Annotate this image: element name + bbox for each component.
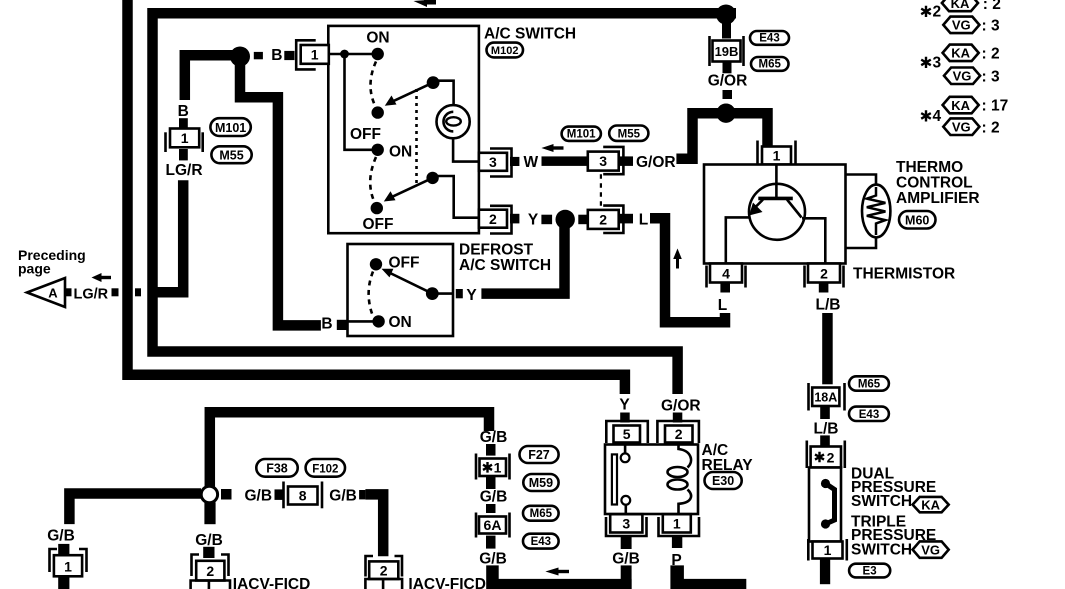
oval M65 [751,57,789,71]
wire: G/OR stub into relay pin 2 [673,413,683,423]
dashed link connector 3 to connector 2 [600,174,602,210]
wire: L/B down to 18A [822,313,833,384]
svg-text:IACV-FICD: IACV-FICD [408,576,486,589]
wire: P down and bottom bus right [670,565,746,589]
svg-text:3: 3 [622,516,630,532]
svg-text:2: 2 [933,4,942,21]
wire: stub below connector 1 [58,576,69,589]
svg-text:VG: VG [952,120,971,135]
svg-text:: 2: : 2 [982,46,1000,63]
svg-text:A/C SWITCH: A/C SWITCH [459,257,551,274]
svg-text:1: 1 [181,130,189,146]
svg-text:: 3: : 3 [982,68,1000,85]
note *3 KA:2 [921,57,931,68]
dual pressure switch body [809,468,841,542]
svg-text:M65: M65 [759,59,782,71]
wire: B stub into pin 1 [284,51,294,60]
svg-text:G/OR: G/OR [636,154,676,171]
wire: LG/R dash 3 [135,288,141,296]
svg-text:2: 2 [206,563,214,579]
wire: L stub right of connector 2 [620,214,633,224]
A/C relay box [605,445,698,515]
wire: stub above *2 [820,435,830,446]
svg-text:2: 2 [489,211,497,227]
wire: Y junction down to defrost switch [481,227,564,294]
connector 1 (pressure switch) [808,539,847,561]
svg-text:: 17: : 17 [982,98,1009,115]
svg-text:G/B: G/B [195,532,223,549]
svg-text:: 3: : 3 [982,18,1000,35]
oval M101 (second) [562,127,601,141]
wire: stub below pin 2 [819,283,829,293]
svg-text:M59: M59 [529,476,553,490]
wire: 6A column down and bottom G/B bus [486,565,631,589]
wire lever 2 to pin 2 [438,176,479,218]
arrow above bottom G/B bus pointing left [545,568,569,576]
svg-text:G/OR: G/OR [708,73,748,90]
connector 3 (M101/M55) [588,147,624,174]
svg-text:Y: Y [528,212,539,229]
node: B junction dot [230,47,250,67]
wire: B stub into defrost switch [337,320,348,330]
wire lever 1 to lamp [438,81,454,105]
lamp (A/C switch illumination) [437,105,470,138]
svg-text:M65: M65 [530,508,553,520]
connector pin 3 of A/C switch [479,149,512,177]
arrow above W wire pointing left [541,144,563,152]
svg-text:B: B [321,315,332,332]
thermo amp connector pin 1 [758,141,796,167]
svg-text:A: A [48,286,58,301]
svg-text:L/B: L/B [816,297,841,314]
oval E43 (18A) [849,407,889,421]
svg-text:VG: VG [953,69,972,84]
oval E43 (6A) [523,534,559,549]
connector 2 (middle IACV) [192,555,229,581]
svg-text:3: 3 [599,153,607,169]
wire: stub from top bus to 19B [722,19,731,39]
svg-text:E43: E43 [531,536,551,548]
wire: dash right of junction circle [221,489,232,500]
note VG:3 [943,17,979,33]
connector 2 (right IACV) [366,556,403,579]
svg-text:: 2: : 2 [982,119,1000,136]
wire: B dash right of junction [254,52,263,59]
svg-text:18A: 18A [814,391,837,405]
wire: G/B below junction [204,502,215,524]
mechanical link dotted line [415,89,418,184]
wire: dash left of connector 8 [275,489,285,500]
connector 2 (M101/M55) [588,206,624,233]
node: open junction circle [201,486,217,502]
contact OFF pole 2 [371,202,383,214]
wire: left vertical bus 1 down to lower bus and Y feed to relay pin 5 [128,0,625,394]
svg-text:ON: ON [366,30,389,47]
wire: stub above connector 2 [203,547,214,558]
svg-text:2: 2 [675,426,683,442]
svg-text:G/B: G/B [612,551,640,568]
lever pole 2 with arrow [384,172,439,202]
IACV-FICD device box (right, clipped) [365,579,402,589]
wire: G/B corner down to star1 [483,428,485,430]
svg-text:G/B: G/B [245,488,273,505]
svg-text:3: 3 [933,55,942,72]
svg-text:ON: ON [389,314,412,331]
svg-text:19B: 19B [715,44,739,59]
hex star notes [921,0,1008,136]
svg-text:LG/R: LG/R [74,287,109,303]
svg-text:M101: M101 [567,129,596,141]
thin line lever to box edge [432,292,453,295]
wire: left vertical bus 2, top bus, middle bus, G/OR feed to relay pin 2 [153,13,737,394]
wire: stub below 6A [486,536,496,549]
wire: G/OR step up to junction [676,113,726,159]
relay armature bar [612,454,617,504]
contact ON pole 1 [372,48,384,60]
svg-text:G/OR: G/OR [661,398,701,415]
connector 1 (left IACV) [50,549,87,576]
wire: G/B stub below relay pin 3 [621,536,632,549]
svg-text:4: 4 [722,266,730,282]
oval F27 [520,446,559,463]
arrow up beside L wire [673,249,682,269]
svg-text:F27: F27 [528,448,550,462]
svg-text:ON: ON [389,144,412,161]
wire: stub below 18A [820,406,830,419]
svg-text:IACV-FICD: IACV-FICD [233,576,310,589]
wire: stub below 19B [723,62,732,74]
svg-text:THERMO: THERMO [896,159,963,176]
wire: Y stub right of A/C pin 2 [510,214,519,224]
svg-text:5: 5 [623,426,631,442]
note *4 KA:17 [921,110,931,121]
svg-text:2: 2 [599,212,607,228]
wire: LG/R dash 2 [112,288,119,296]
svg-text:KA: KA [951,46,970,61]
svg-text:6A: 6A [484,517,502,533]
svg-text:M102: M102 [491,45,519,57]
svg-text:KA: KA [951,0,970,11]
svg-text:F102: F102 [312,464,338,476]
oval M55 (second) [609,126,648,141]
connector pin 1 of A/C switch [296,40,329,69]
wire lamp to pin 3 [453,138,478,161]
svg-text:1: 1 [64,559,72,575]
thermistor loop wires [846,175,877,190]
svg-text:M55: M55 [219,148,243,162]
svg-text:M60: M60 [905,214,929,228]
oval M102 [487,43,524,58]
svg-text:L: L [718,297,727,314]
relay connector pin 2 [657,421,699,443]
arrow on top bus (clipped) [414,0,437,7]
svg-text:Y: Y [619,397,630,414]
svg-text:B: B [271,47,282,64]
connector 18A [809,383,845,411]
wire: G/B distribution bus top [210,412,489,487]
amp internal wires [726,217,751,263]
svg-text:E43: E43 [759,33,779,45]
svg-text:1: 1 [824,542,832,558]
svg-text:W: W [524,154,539,171]
relay contact circles and leads [621,445,631,514]
wire: F102 branch down to right IACV [365,494,383,556]
defrost contact ON [372,315,384,327]
connector 19B [710,36,744,66]
wire: Y dash [541,215,552,225]
connector 6A [476,513,510,538]
svg-text:B: B [178,103,189,120]
oval M55 [211,146,251,163]
svg-text:4: 4 [933,108,942,125]
relay connector pin 1 [659,514,700,536]
svg-text:1: 1 [773,148,781,164]
note *2 KA:2 [921,6,931,17]
contact ON pole 2 [372,144,384,156]
svg-text:L/B: L/B [814,421,839,438]
svg-text:A/C SWITCH: A/C SWITCH [484,26,576,43]
thin line B into ON contact [348,320,379,323]
node: junction dot 2 [716,104,735,123]
svg-text:SWITCH: SWITCH [851,493,912,510]
arrow above LG/R pointing left [92,273,112,282]
wire: stub above star1 [486,444,496,456]
relay connector pin 3 [606,514,647,536]
oval E30 [705,472,742,489]
svg-text:AMPLIFIER: AMPLIFIER [896,190,980,207]
defrost contact OFF [370,258,382,270]
connector 8 (F38/F102) [284,482,323,509]
wire: stub above connector 1 [58,544,69,555]
wire: below pressure switch [820,559,830,585]
wire: LG/R column down to LG/R row [156,180,183,292]
wire: stub B to fuse [179,118,188,129]
wire: G/OR stub right of connector 3 [620,156,633,166]
wire: relay pin3 down to bottom bus [621,565,632,589]
svg-text:: 2: : 2 [983,0,1001,13]
oval E43 [750,31,789,45]
oval M65 (18A) [849,376,889,390]
svg-text:2: 2 [820,266,828,282]
thermistor [862,185,890,238]
svg-text:G/B: G/B [479,551,507,568]
wire: W stub [510,157,519,166]
svg-text:G/B: G/B [47,528,75,545]
node: junction dot on top bus [716,5,736,25]
wire: W thick wire [542,156,588,166]
lever pole 1 with arrow [385,76,440,106]
wire: dash below G/OR [723,90,733,99]
svg-text:page: page [18,261,51,277]
dashed travel arc pole 1 [370,62,376,106]
contact OFF pole 1 [372,106,384,118]
svg-text:M101: M101 [215,121,246,135]
note VG:2 [943,118,979,135]
svg-text:G/B: G/B [329,488,357,505]
wire: B branch left of junction [185,55,240,100]
wire: Y dash 2 [578,215,588,225]
svg-text:F38: F38 [266,462,288,476]
wire: G/B left branch [69,494,201,525]
connector 1 (M101/M55 fuse) [166,129,203,153]
svg-text:KA: KA [951,98,970,113]
wire: stub below pin 4 [720,283,730,293]
connector *2 (pressure switch) [807,441,845,469]
svg-text:Y: Y [466,287,477,304]
svg-text:E43: E43 [859,409,879,421]
IACV-FICD device box (middle, clipped) [191,581,230,589]
svg-text:KA: KA [921,497,940,512]
svg-text:VG: VG [952,18,971,33]
thermo amp connector pin 4 [707,264,746,288]
svg-text:E3: E3 [863,565,877,577]
svg-text:M65: M65 [858,379,881,391]
oval M101 [210,118,250,136]
svg-text:SWITCH: SWITCH [851,542,912,559]
svg-text:1: 1 [673,516,681,532]
svg-text:G/B: G/B [480,489,508,506]
svg-text:THERMISTOR: THERMISTOR [853,266,955,283]
svg-text:OFF: OFF [363,216,394,233]
svg-text:1: 1 [311,47,319,63]
wire: Y stub out of defrost [456,289,463,298]
oval M65 (6A) [523,506,559,521]
connector pin 2 of A/C switch [479,206,512,234]
relay connector pin 5 [606,421,648,443]
svg-text:8: 8 [299,488,307,504]
wire: stub below relay pin 1 [672,536,682,548]
svg-text:LG/R: LG/R [166,162,203,179]
svg-text:3: 3 [489,154,497,170]
oval F38 [256,459,297,477]
A/C switch pole 1: feed line and node [329,53,378,56]
dashed travel arc (defrost) [369,272,373,316]
wire: junction 2 right arm to amp pin 1 [726,113,768,146]
wire: LG/R dashes [65,288,72,296]
oval M59 [523,474,558,491]
svg-text:DEFROST: DEFROST [459,242,534,259]
oval F102 [306,459,345,477]
wire: L wire down and to thermo amp pin 4 [650,218,725,322]
relay coil [668,445,692,514]
svg-text:E30: E30 [712,474,734,488]
svg-text:1: 1 [494,460,502,476]
wire: B branch down to defrost switch [240,51,321,325]
note VG:3 (2) [944,68,980,85]
connector *1 [476,454,510,480]
svg-text:2: 2 [827,450,835,466]
defrost lever with arrow [382,269,439,300]
svg-text:2: 2 [380,563,388,579]
wire: stub below star1 [486,476,496,489]
switch bar [826,484,835,525]
svg-text:VG: VG [921,542,940,557]
switch contact top [821,479,830,488]
svg-text:M55: M55 [618,128,641,140]
dashed travel arc pole 2 [370,157,376,201]
thermo amp connector pin 2 [805,264,844,288]
wire: stub above 6A [486,504,496,513]
thermo control amplifier box [704,165,846,264]
defrost switch box [348,244,454,336]
svg-text:L: L [639,212,648,229]
svg-text:G/B: G/B [480,429,508,446]
A/C switch box M102 [328,26,479,233]
oval M60 [899,211,936,229]
node: Y junction dot [556,210,575,229]
wire: dash right of G/B [359,490,365,499]
svg-text:CONTROL: CONTROL [896,175,973,192]
svg-text:OFF: OFF [350,126,381,143]
oval E3 [849,564,890,578]
transistor inside amp [749,165,805,240]
wire: LG/R stub below fuse [179,149,188,160]
wire: Y stub into relay pin 5 [620,413,630,423]
connector A (preceding page triangle) [27,278,65,307]
switch contact bottom [821,519,830,528]
